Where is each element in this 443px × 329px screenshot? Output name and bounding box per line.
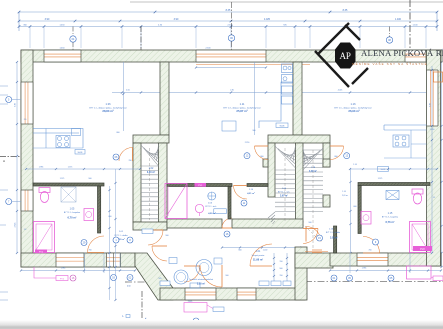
svg-text:1.200: 1.200 xyxy=(263,250,268,252)
svg-text:3.90: 3.90 xyxy=(15,103,17,107)
axis circle right xyxy=(386,37,392,43)
svg-text:1.1: 1.1 xyxy=(433,197,436,199)
tech small boxes xyxy=(169,258,177,264)
hall 1.13 bottom door xyxy=(312,249,322,251)
tech tank circle 2 xyxy=(196,260,212,276)
svg-text:1.14: 1.14 xyxy=(342,191,346,193)
svg-text:1.450: 1.450 xyxy=(59,48,65,50)
svg-text:2.500: 2.500 xyxy=(227,24,233,26)
axis circle CH xyxy=(70,36,76,42)
vertical dim right unit xyxy=(431,66,433,253)
center H-bar wall xyxy=(268,135,330,143)
svg-text:900: 900 xyxy=(226,275,229,277)
bottom-right exterior wall xyxy=(330,253,441,266)
door center hall left xyxy=(255,145,269,147)
kitchen left stove xyxy=(56,136,70,148)
bottom dim verticals xyxy=(273,253,275,285)
center right staircase xyxy=(303,147,323,211)
pink label PV2 right bath xyxy=(413,246,432,251)
right exterior wall xyxy=(427,50,441,266)
svg-text:6,70 m²: 6,70 m² xyxy=(68,216,77,220)
porch entry door xyxy=(185,288,216,300)
bottom gray bar xyxy=(0,0,1,1)
center left staircase xyxy=(268,145,296,224)
svg-text:4.025: 4.025 xyxy=(338,90,343,92)
svg-text:700: 700 xyxy=(369,250,372,252)
kitchen left label xyxy=(75,150,85,155)
svg-text:2.625: 2.625 xyxy=(188,301,193,303)
left washing machine xyxy=(84,209,94,221)
tag circle right hall xyxy=(317,235,323,241)
svg-text:1.05: 1.05 xyxy=(70,208,75,211)
axis line A horizontal left xyxy=(0,156,21,158)
axis line bottom right horizontal xyxy=(305,281,443,283)
svg-text:600: 600 xyxy=(354,206,357,208)
bottom dim row right unit xyxy=(330,270,441,272)
tech boiler T1 xyxy=(195,204,203,212)
tag circles bottom row xyxy=(111,275,117,281)
interior wall V1 upper xyxy=(160,62,169,135)
interior dimension line xyxy=(112,92,437,94)
kitchen center unit xyxy=(259,82,293,128)
left edge dimension marks xyxy=(0,85,8,87)
svg-text:1.575: 1.575 xyxy=(60,178,65,180)
hall dim column 1 xyxy=(109,186,111,300)
svg-text:700: 700 xyxy=(89,250,92,252)
svg-text:BYT 1.3 - chodba: BYT 1.3 - chodba xyxy=(326,232,340,234)
axis circle B xyxy=(228,35,234,41)
svg-text:A: A xyxy=(3,159,5,163)
center stairs guide arrows xyxy=(284,148,286,222)
left shower xyxy=(61,187,76,202)
svg-text:MĚNÍME VAŠE SNY NA ŠŤASTNÉ: MĚNÍME VAŠE SNY NA ŠŤASTNÉ xyxy=(352,61,428,66)
svg-text:4.50: 4.50 xyxy=(126,90,130,92)
svg-text:1.3: 1.3 xyxy=(24,229,27,231)
svg-text:1.985: 1.985 xyxy=(39,167,44,169)
hall 1.13 door arc xyxy=(305,227,307,242)
svg-text:1.575: 1.575 xyxy=(378,178,383,180)
hall dim column 2 xyxy=(115,169,117,300)
svg-text:600: 600 xyxy=(109,216,112,218)
left exterior wall xyxy=(21,50,33,267)
svg-text:25,87 m²: 25,87 m² xyxy=(236,109,247,113)
svg-text:2.250: 2.250 xyxy=(245,142,250,144)
entry dim line xyxy=(222,247,300,249)
svg-text:900: 900 xyxy=(166,235,169,237)
svg-text:3.90: 3.90 xyxy=(430,103,432,107)
right bathroom top partition xyxy=(358,183,430,186)
interior wall V1 jog xyxy=(133,135,169,143)
interior wall V2 (center upper) xyxy=(293,62,302,135)
door tech room porch xyxy=(184,265,200,267)
partition top of rooms 1.03/1.10 xyxy=(167,184,232,187)
hall bottom wall H2 left part xyxy=(167,219,222,228)
sheet border line xyxy=(130,1,443,3)
tag circle bath door xyxy=(81,240,87,246)
svg-text:3.90: 3.90 xyxy=(45,18,50,21)
svg-text:8.35: 8.35 xyxy=(343,9,348,12)
svg-text:AP: AP xyxy=(339,51,351,61)
left toilet xyxy=(39,188,50,193)
door right hall lower xyxy=(303,228,318,230)
tag circle door 12 xyxy=(244,153,250,159)
bath top dimension row xyxy=(26,168,140,170)
door left unit entry 1 xyxy=(148,229,163,231)
svg-text:525: 525 xyxy=(159,278,162,280)
svg-text:800: 800 xyxy=(239,250,242,252)
center stair right wall xyxy=(323,143,330,167)
tech tank circle 1 xyxy=(174,270,188,284)
tech small labels xyxy=(214,209,227,214)
left bathroom top partition xyxy=(33,183,104,186)
svg-text:1.16: 1.16 xyxy=(350,102,356,106)
entry doors crossing 1 xyxy=(221,265,223,287)
right bathroom left partition xyxy=(358,186,361,234)
svg-text:3,30 m²: 3,30 m² xyxy=(147,170,155,174)
svg-text:BYT 1.1 - koupelna: BYT 1.1 - koupelna xyxy=(64,212,81,214)
svg-text:BYT 1.1 - chodba: BYT 1.1 - chodba xyxy=(114,235,127,237)
center spine wall xyxy=(296,143,304,226)
svg-text:2.625: 2.625 xyxy=(15,223,17,228)
svg-text:900: 900 xyxy=(253,130,256,132)
svg-text:1.400: 1.400 xyxy=(395,18,402,21)
kitchen right stove xyxy=(393,135,409,147)
bottom dim crossing marks xyxy=(84,253,86,273)
svg-text:904.B: 904.B xyxy=(280,126,285,128)
svg-text:1.02: 1.02 xyxy=(149,167,154,170)
right toilet xyxy=(412,189,423,194)
kitchen right label xyxy=(378,167,389,172)
left stair guide line xyxy=(149,148,151,220)
vertical dim x350 xyxy=(350,169,352,253)
svg-text:904.B: 904.B xyxy=(381,169,386,171)
pink annotation bottom-left xyxy=(34,267,56,278)
svg-text:900: 900 xyxy=(89,178,92,180)
left stair shaft bottom wall xyxy=(133,222,167,230)
svg-text:11,66 m²: 11,66 m² xyxy=(253,258,263,262)
svg-text:150: 150 xyxy=(280,261,283,263)
entry doors crossing 2 xyxy=(250,265,272,267)
PV2 label under tub xyxy=(35,250,47,254)
window left W5 xyxy=(21,190,33,211)
door left unit entry 2 xyxy=(152,245,167,247)
svg-text:8.35: 8.35 xyxy=(226,9,231,12)
svg-text:PV2: PV2 xyxy=(420,248,425,251)
center stair left wall xyxy=(268,143,275,197)
door left living to stair hall xyxy=(132,148,134,162)
tag circle hall door xyxy=(224,231,230,237)
right hall partition xyxy=(334,226,337,253)
hall bottom wall H2 right part xyxy=(232,219,303,228)
svg-text:1.14: 1.14 xyxy=(353,164,357,166)
bottom-left exterior wall xyxy=(21,253,135,267)
door hall H2 gap xyxy=(222,227,232,229)
svg-text:150: 150 xyxy=(280,275,283,277)
top dimension lines xyxy=(19,11,437,13)
svg-text:2,01 m²: 2,01 m² xyxy=(342,194,348,197)
window top-right W3 xyxy=(405,50,426,62)
svg-text:4,99 m²: 4,99 m² xyxy=(208,212,216,215)
window left W4 xyxy=(21,82,33,124)
svg-text:800: 800 xyxy=(335,156,338,158)
vertical dim x123 xyxy=(123,62,125,131)
bottom dim row left unit xyxy=(21,270,135,272)
porch diagonal wall xyxy=(135,253,173,300)
logo outer diamond xyxy=(315,23,368,87)
left vertical dimension line xyxy=(16,62,18,253)
right shower xyxy=(386,191,399,200)
left bathtub xyxy=(34,222,55,253)
svg-text:3.90: 3.90 xyxy=(174,18,179,21)
svg-text:900: 900 xyxy=(309,222,312,224)
window top-left W1 xyxy=(44,50,81,62)
partition between 1.03 and 1.10 xyxy=(228,187,231,220)
door arc room 1.10 xyxy=(234,185,248,187)
svg-text:2.30: 2.30 xyxy=(230,90,234,92)
stub pier left of center door xyxy=(263,159,268,167)
svg-text:1.01: 1.01 xyxy=(256,250,261,253)
downpipe box right wall xyxy=(434,72,443,82)
window top-center W2 xyxy=(196,50,266,62)
interior wall V1c right of stair xyxy=(159,143,168,222)
svg-text:3,50 m²: 3,50 m² xyxy=(197,282,205,286)
svg-text:ALENA PICKOVÁ RE: ALENA PICKOVÁ RE xyxy=(361,48,443,58)
window right W8 xyxy=(427,70,439,126)
svg-text:Technická místnost společná: Technická místnost společná xyxy=(189,278,214,281)
porch right wall L vertical xyxy=(295,247,307,300)
sill line right unit xyxy=(305,251,328,253)
center stair right wall stub lower xyxy=(323,195,330,207)
logo inner black hexagon xyxy=(335,43,356,69)
svg-text:1.450: 1.450 xyxy=(59,24,65,26)
tag circles hall row xyxy=(113,237,119,243)
window bottom-left W6 xyxy=(56,253,84,267)
porch window xyxy=(237,288,256,300)
axis line vertical right xyxy=(409,0,411,50)
tag circle room 1.10 xyxy=(241,200,247,206)
tag circle pink leader xyxy=(70,275,76,281)
svg-text:26,93 m²: 26,93 m² xyxy=(348,109,359,113)
axis line bottom horizontal left xyxy=(125,281,170,283)
paving rectangle below porch xyxy=(184,303,207,313)
vertical dim x254 xyxy=(254,62,256,135)
svg-text:2.0: 2.0 xyxy=(24,119,27,121)
right unit dim ticks xyxy=(349,181,351,183)
right bathtub xyxy=(410,222,431,253)
svg-text:4.50: 4.50 xyxy=(127,286,131,288)
kitchen left sink box xyxy=(72,129,81,136)
svg-text:1.15: 1.15 xyxy=(388,212,393,215)
hall label box xyxy=(142,229,153,234)
kitchen right unit counter xyxy=(384,125,427,130)
axis line vertical B xyxy=(140,26,142,50)
tag circle door A xyxy=(344,153,350,159)
interior wall V1 lower xyxy=(133,143,141,222)
window W2 sill dim xyxy=(196,67,266,69)
hall 1.13 stair dashes xyxy=(305,226,320,241)
right washing machine xyxy=(361,212,371,225)
door center hall right xyxy=(330,145,344,147)
left bathroom right partition xyxy=(98,186,101,233)
door right bathroom xyxy=(363,252,380,254)
legend small boxes row xyxy=(259,281,269,286)
porch right wall L horizontal xyxy=(295,253,333,268)
svg-text:904.B: 904.B xyxy=(78,152,83,154)
svg-text:6,76 m²: 6,76 m² xyxy=(386,220,395,224)
tag circle left 7 xyxy=(6,199,12,205)
svg-text:2.500: 2.500 xyxy=(205,48,211,50)
window bottom-right W7 xyxy=(357,253,388,266)
left unit staircase xyxy=(141,144,159,218)
right bath small sink xyxy=(222,121,236,131)
svg-text:BYT 1.1 - tech.: BYT 1.1 - tech. xyxy=(205,205,217,208)
svg-text:28,83 m²: 28,83 m² xyxy=(102,109,113,113)
door left bathroom xyxy=(88,252,105,254)
tech shaft pink rect xyxy=(165,184,187,219)
tag circle right bath door xyxy=(373,239,379,245)
svg-text:4.025: 4.025 xyxy=(264,18,271,21)
axis line bottom vertical xyxy=(141,291,143,319)
svg-text:BYT 1.3 - koupelna: BYT 1.3 - koupelna xyxy=(382,217,399,219)
svg-text:700: 700 xyxy=(129,160,132,162)
svg-text:2.250: 2.250 xyxy=(430,129,435,131)
bath top dimension row right xyxy=(350,168,437,170)
tag circle bottom center xyxy=(193,318,199,324)
kitchen left unit counter xyxy=(33,129,83,149)
pink annotation bottom-right xyxy=(407,266,432,279)
svg-text:1.11: 1.11 xyxy=(240,102,245,106)
svg-text:BYT 1.1 - sch.: BYT 1.1 - sch. xyxy=(278,191,290,193)
top exterior wall xyxy=(21,50,442,62)
svg-text:1.100: 1.100 xyxy=(412,24,418,26)
tech fan circle xyxy=(208,192,216,200)
svg-text:900: 900 xyxy=(280,268,283,270)
svg-text:1.36: 1.36 xyxy=(105,102,111,106)
tag circle door 06 xyxy=(113,154,119,160)
svg-text:800: 800 xyxy=(261,156,264,158)
stub pier right of center door xyxy=(323,159,330,167)
svg-text:Vstupní prostor: Vstupní prostor xyxy=(252,254,265,257)
svg-text:800: 800 xyxy=(117,132,120,134)
porch bottom wall xyxy=(160,288,305,300)
svg-text:1.985: 1.985 xyxy=(61,268,66,270)
svg-text:4,21 m²: 4,21 m² xyxy=(247,192,255,195)
svg-text:1.985: 1.985 xyxy=(362,268,367,270)
right edge dimension line xyxy=(441,50,443,267)
svg-text:1.575: 1.575 xyxy=(68,167,73,169)
tag circle left S xyxy=(6,97,12,103)
window bottom-left W6b xyxy=(107,253,121,267)
